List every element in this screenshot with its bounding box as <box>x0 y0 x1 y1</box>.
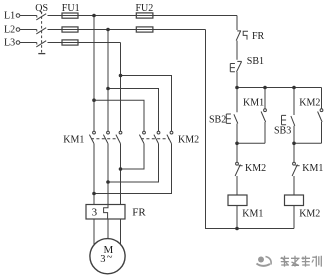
svg-text:KM2: KM2 <box>178 135 199 146</box>
svg-text:KM1: KM1 <box>243 98 264 109</box>
svg-text:QS: QS <box>35 3 48 14</box>
svg-text:3: 3 <box>100 254 105 265</box>
svg-text:~: ~ <box>107 252 113 263</box>
svg-text:L2: L2 <box>4 24 15 35</box>
svg-text:KM1: KM1 <box>302 163 323 174</box>
svg-text:L3: L3 <box>4 37 15 48</box>
svg-text:FU1: FU1 <box>62 3 80 14</box>
svg-text:KM2: KM2 <box>299 98 320 109</box>
svg-text:SB3: SB3 <box>274 126 291 137</box>
svg-text:FR: FR <box>132 207 146 219</box>
svg-text:KM2: KM2 <box>299 209 320 220</box>
svg-text:FR: FR <box>252 31 265 42</box>
svg-text:L1: L1 <box>4 10 15 21</box>
svg-text:FU2: FU2 <box>136 3 154 14</box>
svg-text:SB2: SB2 <box>209 115 226 126</box>
svg-text:3: 3 <box>92 207 98 219</box>
svg-text:KM1: KM1 <box>242 209 263 220</box>
svg-text:SB1: SB1 <box>247 56 264 67</box>
svg-text:KM2: KM2 <box>245 163 266 174</box>
svg-text:KM1: KM1 <box>63 135 84 146</box>
